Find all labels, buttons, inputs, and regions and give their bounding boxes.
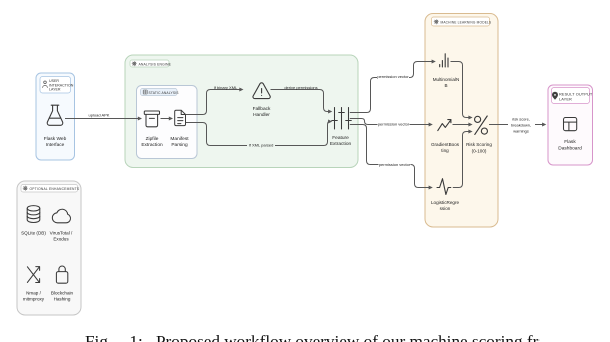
svg-text:risk score,: risk score, — [512, 117, 530, 122]
header pill: user interaction layer — [40, 77, 74, 94]
svg-text:OPTIONAL ENHANCEMENTS: OPTIONAL ENHANCEMENTS — [30, 187, 80, 191]
icon: fallback handler (warning triangle) — [253, 83, 270, 99]
svg-text:Blockchain: Blockchain — [51, 291, 74, 296]
svg-text:Feature: Feature — [332, 135, 349, 141]
wire: LogisticRegression to risk scoring — [453, 130, 473, 188]
svg-text:If binary XML: If binary XML — [214, 85, 238, 90]
icon: gear (ML header) — [434, 19, 439, 24]
box: optional enhancements — [17, 181, 81, 315]
wire: fallback handler to feature extraction (derive permissions) — [271, 90, 333, 114]
svg-text:B: B — [444, 83, 447, 88]
svg-text:Extraction: Extraction — [141, 142, 163, 148]
svg-text:permission vector: permission vector — [378, 121, 410, 126]
svg-text:Parsing: Parsing — [171, 142, 188, 148]
label: Fallback Handler — [253, 106, 271, 118]
label: Flask Web Interface — [44, 136, 67, 148]
svg-text:GradientBoos: GradientBoos — [431, 142, 460, 147]
svg-text:Flask Web: Flask Web — [44, 136, 67, 142]
icon: Nmap mitmproxy (crossed arrows) — [27, 267, 39, 283]
caption: Fig. 1 — [85, 333, 540, 342]
icon: pin (result header) — [552, 92, 558, 100]
svg-text:warnings: warnings — [513, 129, 529, 134]
svg-text:ssion: ssion — [440, 206, 451, 211]
label: LogisticRegression — [431, 200, 460, 211]
wire: feature extraction to GradientBoosting (permission vector middle) — [350, 119, 433, 127]
svg-text:permission vector: permission vector — [377, 74, 409, 79]
wire: GradientBoosting to risk scoring — [453, 123, 473, 127]
box: result output layer — [548, 85, 593, 165]
wire: MultinomialNB to risk scoring — [451, 62, 473, 120]
label: VirusTotal / Exodus — [50, 231, 73, 242]
svg-text:Hashing: Hashing — [54, 297, 71, 302]
icon: gear (optional header) — [23, 186, 28, 191]
header pill: static analysis — [141, 89, 180, 96]
wire: upload APK arrow (flask to zipfile) — [65, 117, 142, 121]
svg-text:Exodus: Exodus — [53, 237, 69, 242]
svg-text:Fallback: Fallback — [253, 106, 271, 112]
icon: zipfile extraction (package) — [144, 111, 159, 127]
label: Feature Extraction — [330, 135, 352, 147]
icon: blockchain hashing (padlock) — [56, 266, 67, 283]
label: GradientBoosting — [431, 142, 460, 153]
header pill: analysis engine — [130, 60, 172, 67]
svg-text:Flask: Flask — [564, 139, 576, 145]
icon: person (user layer header) — [43, 81, 48, 88]
wire: zipfile to manifest arrow — [161, 117, 174, 121]
label: permission vector (top) — [377, 73, 409, 80]
icon: manifest parsing (document) — [175, 110, 186, 125]
wire: risk scoring to flask dashboard — [489, 123, 546, 127]
icon: flask dashboard (layout) — [564, 118, 577, 131]
svg-text:LAYER: LAYER — [559, 96, 572, 101]
icon: risk scoring (percent) — [475, 116, 488, 134]
header pill: result output layer — [552, 88, 593, 104]
label: Nmap / mitmproxy — [23, 291, 45, 302]
wire: feature extraction to LogisticRegression (permission vector bottom) — [350, 125, 433, 190]
svg-text:Interface: Interface — [46, 142, 65, 148]
wire: manifest to feature extraction (if XML parsed) — [186, 120, 332, 146]
box: analysis engine — [125, 55, 358, 168]
svg-text:mitmproxy: mitmproxy — [23, 297, 45, 302]
label: permission vector (bottom) — [379, 161, 411, 168]
icon: flask — [47, 105, 63, 125]
label: Zipfile Extraction — [141, 136, 163, 148]
wire: manifest to fallback handler (if binary XML) — [186, 88, 244, 115]
svg-text:Nmap /: Nmap / — [26, 291, 42, 296]
icon: SQLite database (cylinder) — [27, 206, 40, 223]
label: upload APK — [89, 112, 110, 117]
label: Flask Dashboard — [558, 139, 582, 152]
wire: feature extraction to MultinomialNB (permission vector top) — [350, 60, 436, 113]
box: static analysis — [137, 86, 198, 159]
svg-text:Zipfile: Zipfile — [146, 136, 159, 142]
svg-text:permission vector: permission vector — [379, 162, 411, 167]
icon: gear (analysis engine header) — [132, 61, 137, 66]
label: SQLite (DB) — [21, 231, 46, 236]
svg-text:SQLite (DB): SQLite (DB) — [21, 231, 46, 236]
icon: GradientBoosting (trend zigzag) — [438, 120, 451, 131]
svg-text:derive permissions: derive permissions — [284, 85, 317, 90]
header pill: machine learning models — [432, 17, 492, 26]
svg-text:If XML parsed: If XML parsed — [249, 142, 274, 147]
svg-text:Dashboard: Dashboard — [558, 146, 582, 152]
svg-text:upload APK: upload APK — [89, 112, 110, 117]
svg-text:MACHINE LEARNING MODELS: MACHINE LEARNING MODELS — [441, 21, 492, 25]
icon: MultinomialNB (bar chart) — [440, 54, 448, 67]
svg-text:ANALYSIS ENGINE: ANALYSIS ENGINE — [139, 63, 172, 67]
icon: feature extraction (sliders) — [332, 108, 352, 130]
label: derive permissions — [284, 85, 317, 90]
icon: VirusTotal cloud — [52, 209, 70, 223]
box: user interaction layer — [36, 73, 75, 160]
header pill: optional enhancements — [21, 185, 80, 193]
svg-text:MultinomialN: MultinomialN — [433, 77, 460, 82]
svg-text:Extraction: Extraction — [330, 141, 352, 147]
svg-text:Manifest: Manifest — [170, 136, 189, 142]
svg-text:Risk Scoring: Risk Scoring — [466, 142, 492, 147]
label: Manifest Parsing — [170, 136, 189, 148]
label: risk score, breakdown, warnings — [508, 116, 535, 134]
svg-text:LogisticRegre: LogisticRegre — [431, 200, 460, 205]
label: permission vector (middle) — [378, 120, 410, 127]
svg-text:Handler: Handler — [253, 112, 270, 118]
label: If XML parsed — [247, 142, 275, 148]
label: MultinomialNB — [433, 77, 460, 88]
svg-text:VirusTotal /: VirusTotal / — [50, 231, 73, 236]
svg-text:ting: ting — [441, 148, 449, 153]
label: Risk Scoring (0-100) — [466, 142, 492, 154]
svg-text:STATIC ANALYSIS: STATIC ANALYSIS — [149, 91, 180, 95]
box: machine learning models — [425, 14, 498, 228]
svg-text:breakdown,: breakdown, — [511, 123, 531, 128]
icon: grid (static analysis header) — [143, 90, 147, 94]
label: If binary XML — [214, 85, 238, 90]
svg-text:LAYER: LAYER — [49, 88, 61, 92]
svg-text:(0-100): (0-100) — [472, 149, 487, 154]
icon: LogisticRegression (pulse wave) — [437, 179, 451, 195]
label: Blockchain Hashing — [51, 291, 74, 302]
